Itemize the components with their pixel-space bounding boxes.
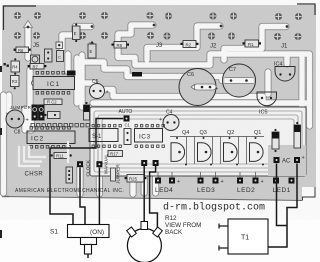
vertical component E2	[88, 41, 96, 58]
CLOCK black pad	[77, 161, 83, 167]
wire to motor right	[150, 166, 158, 228]
top-left cluster resistor R7	[28, 64, 47, 70]
hookup wires	[50, 119, 297, 248]
transistor Q1	[250, 130, 265, 166]
trace end dots	[27, 24, 289, 29]
resistor R17 in box	[108, 151, 123, 157]
traces white pass	[4, 25, 310, 194]
scan artifacts left edge	[0, 66, 2, 72]
gray patch AC area	[268, 145, 306, 176]
capacitor C4	[159, 110, 179, 131]
transistor Q3	[198, 130, 213, 166]
pin pads row in box bottom	[92, 145, 164, 147]
nested loop 4	[102, 119, 294, 164]
pin pads row in box top	[92, 125, 164, 127]
corner mark bottom-left	[3, 188, 10, 197]
nested loop 2	[94, 111, 302, 172]
black component above IC1	[67, 71, 76, 76]
via near J5	[56, 42, 63, 49]
wire clock to S1	[80, 168, 85, 226]
diode D6 vertical	[294, 122, 301, 148]
motor black pads	[141, 160, 147, 166]
vertical component C9 below via	[57, 51, 64, 62]
wire auto to S1	[50, 119, 123, 226]
thin traces bottom-left	[19, 141, 68, 166]
PCB board gray area	[2, 5, 316, 201]
transistor Q4	[171, 130, 189, 166]
vertical capacitor C10	[45, 49, 53, 62]
connecting line across transistors	[170, 136, 264, 138]
wire to motor top	[143, 166, 145, 222]
resistor R2	[181, 41, 199, 48]
wire AC left to T1	[277, 164, 288, 226]
capacitor round top-left	[31, 55, 40, 64]
trace A1 arrowhead	[24, 21, 33, 28]
IC3 chip	[135, 129, 163, 143]
svg-text:(ON): (ON)	[90, 229, 104, 236]
transistor Q2	[224, 130, 239, 166]
svg-text:R12: R12	[165, 215, 177, 222]
capacitor C6	[179, 69, 218, 106]
transistor IC5	[257, 92, 277, 116]
pads grid row 1	[14, 12, 302, 20]
diode D5 vertical	[272, 129, 279, 152]
corner mark top-right	[297, 4, 315, 15]
LED2 pads	[237, 178, 243, 184]
IC1 chip	[32, 72, 75, 95]
svg-text:VIEW FROM: VIEW FROM	[165, 222, 201, 229]
black component mid top	[132, 72, 142, 77]
vertical resistor left column lower	[11, 76, 20, 90]
svg-text:d-rm.blogspot.com: d-rm.blogspot.com	[163, 202, 265, 214]
vertical component E1 right of J5	[73, 23, 81, 42]
wire manual to S1	[98, 168, 100, 226]
traces outline pass	[4, 25, 310, 194]
AUTO black pad	[124, 116, 130, 122]
transistor IC4	[274, 62, 295, 82]
corner mark bottom-right notch	[303, 187, 316, 201]
resistor R25 near LED4	[125, 175, 147, 183]
twin black capacitors	[32, 105, 45, 121]
resistor R19 vertical	[111, 168, 116, 181]
capacitor C8	[6, 110, 29, 136]
resistor RC2	[44, 99, 62, 105]
small pads row under cluster	[31, 124, 89, 127]
pads grid row 2	[14, 32, 302, 40]
tiny pads left edge	[4, 63, 6, 65]
diode vertical black top	[84, 102, 90, 120]
resistor R5	[112, 42, 130, 49]
svg-text:BACK: BACK	[165, 229, 183, 236]
LED3 pads	[198, 178, 204, 184]
motor R12 body	[127, 222, 163, 262]
IC6 small chip in box	[89, 129, 118, 142]
nested loop 3	[98, 115, 298, 168]
component box with dot	[44, 112, 60, 119]
central white component box	[90, 107, 306, 176]
LED4 pads	[155, 178, 161, 184]
corner mark top-left	[4, 6, 37, 30]
LED1 pads	[273, 178, 279, 184]
capacitor vertical between chips	[124, 123, 131, 145]
LED connector lines	[158, 172, 256, 178]
svg-text:S1: S1	[50, 229, 58, 236]
svg-text:T1: T1	[241, 235, 249, 242]
capacitor C7	[223, 64, 256, 97]
capacitor C5	[90, 79, 109, 99]
vertical 3-dot component	[66, 167, 73, 183]
CHSR watermark	[23, 169, 44, 178]
board bottom edge line	[2, 197, 302, 201]
IC2 chip	[27, 127, 75, 149]
top-left cluster resistor R6	[14, 47, 31, 53]
resistor R1	[243, 40, 262, 47]
wire AC right to T1	[268, 164, 297, 248]
resistor R11	[51, 153, 72, 159]
MANUAL black pad	[96, 161, 102, 167]
scan noise overlay	[0, 0, 1, 1]
switch S1 body	[68, 225, 110, 255]
AC black pads and label	[274, 157, 280, 163]
vertical resistor left column upper	[11, 58, 20, 75]
transformer T1	[219, 219, 268, 254]
